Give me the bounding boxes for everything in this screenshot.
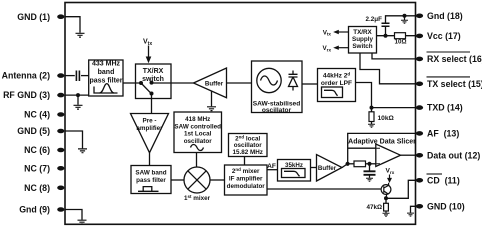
svg-text:418 MHz: 418 MHz [185, 116, 210, 123]
wire buffer out [342, 164, 348, 168]
ground [207, 107, 216, 111]
wire preamp to saw bpf [149, 153, 151, 166]
node [76, 93, 80, 97]
filter 44kHz LPF [318, 69, 356, 102]
svg-text:RX select (16): RX select (16) [427, 54, 482, 64]
capacitor 2.2uF [382, 23, 390, 26]
svg-text:Adaptive Data Slicer: Adaptive Data Slicer [348, 138, 416, 145]
amplifier pre-amp [131, 114, 169, 153]
pin Data out (12) [416, 150, 480, 160]
svg-text:TX/RX: TX/RX [353, 29, 372, 36]
svg-text:AF (13): AF (13) [427, 129, 459, 139]
node [346, 162, 350, 166]
ground [407, 213, 414, 216]
filter SAW band pass [131, 166, 171, 194]
pin TXD (14) [416, 103, 463, 113]
ground [74, 105, 83, 109]
svg-text:Buffer: Buffer [318, 165, 337, 172]
svg-text:GND (10): GND (10) [427, 201, 465, 211]
svg-text:2nd mixer: 2nd mixer [232, 167, 260, 175]
filter 433MHz band pass [89, 60, 123, 96]
ground [368, 124, 375, 127]
wire rfgnd [65, 94, 89, 96]
wire 418 to mixer [196, 153, 198, 168]
svg-text:NC (8): NC (8) [24, 183, 50, 193]
wire vrx arrow [389, 175, 391, 179]
svg-text:Buffer: Buffer [205, 80, 224, 87]
wire antenna [65, 75, 75, 77]
svg-text:Gnd (9): Gnd (9) [19, 205, 50, 215]
svg-text:SAW controlled: SAW controlled [174, 123, 221, 130]
transistor carrier detect [381, 183, 391, 199]
wire Vtx arrow [148, 46, 150, 58]
svg-text:TX select (15): TX select (15) [427, 79, 482, 89]
wire AF pin net [348, 133, 416, 163]
filter 35kHz [278, 160, 311, 182]
oscillator SAW-stabilised [252, 61, 303, 113]
ground [383, 213, 390, 216]
svg-text:pass filter: pass filter [89, 78, 122, 85]
op-amp comparator [376, 144, 401, 167]
wire gnd9 [65, 210, 82, 220]
wire switch to preamp [151, 99, 153, 114]
wire mixer to demod [210, 179, 225, 181]
svg-text:Switch: Switch [352, 43, 372, 50]
wire base from demod [267, 188, 381, 190]
wire switch to buffer [171, 82, 194, 84]
node [370, 106, 374, 110]
svg-text:Vtx: Vtx [323, 29, 332, 36]
svg-text:RF GND (3): RF GND (3) [3, 90, 50, 100]
svg-text:NC (6): NC (6) [24, 145, 50, 155]
mixer 1st [184, 167, 210, 193]
resistor 47k [385, 198, 387, 203]
svg-text:TXD (14): TXD (14) [427, 103, 463, 113]
capacitor slicer [369, 164, 371, 171]
svg-text:Antenna (2): Antenna (2) [2, 71, 50, 81]
wire [81, 75, 89, 77]
node [403, 14, 407, 18]
pin AF (13) [416, 129, 459, 139]
resistor slicer [348, 163, 354, 165]
svg-text:Pre -: Pre - [143, 118, 157, 125]
module outline [65, 3, 416, 225]
svg-text:Supply: Supply [352, 36, 373, 43]
pin GND (5) [17, 126, 64, 136]
svg-text:TX/RX: TX/RX [143, 68, 164, 75]
wire gnd5 [65, 131, 83, 148]
pin Vcc (17) [416, 31, 461, 41]
pin Antenna (2) [2, 71, 65, 81]
capacitor antenna coupling [76, 71, 79, 82]
pin TX select (15) [416, 77, 482, 89]
svg-text:Vcc (17): Vcc (17) [427, 31, 461, 41]
ground [78, 149, 87, 153]
svg-text:433 MHz: 433 MHz [92, 60, 121, 67]
switch TX/RX supply [349, 27, 377, 54]
svg-text:amplifier: amplifier [136, 125, 163, 132]
wire vcc net [377, 35, 416, 37]
wire bpf to switch [123, 82, 136, 84]
pin GND (1) [17, 12, 64, 22]
resistor 10k [371, 108, 373, 112]
svg-text:15.82 MHz: 15.82 MHz [232, 149, 262, 156]
pin Gnd (9) [19, 205, 64, 215]
ground [76, 33, 85, 37]
svg-text:35kHz: 35kHz [285, 162, 303, 169]
svg-text:2.2μF: 2.2μF [366, 16, 383, 23]
pin NC (6) [24, 145, 64, 155]
svg-text:47kΩ: 47kΩ [366, 204, 382, 211]
switch TX/RX [136, 64, 172, 99]
wire osc to lpf [302, 83, 318, 85]
svg-text:GND (1): GND (1) [17, 12, 50, 22]
svg-text:Data out (12): Data out (12) [427, 150, 480, 160]
svg-text:oscillator: oscillator [262, 107, 292, 114]
wire Vtx out [338, 31, 349, 33]
wire lpf to txd [356, 83, 416, 108]
wire rx select net [372, 53, 416, 59]
svg-text:band: band [98, 69, 115, 76]
svg-text:CD (11): CD (11) [427, 175, 460, 185]
svg-text:NC (4): NC (4) [24, 110, 50, 120]
svg-text:pass filter: pass filter [136, 177, 166, 184]
wire [77, 95, 79, 105]
wire sawbpf to mixer [171, 179, 184, 181]
oscillator 2nd local [229, 134, 268, 157]
wire buffer to osc [227, 82, 252, 84]
pin NC (4) [24, 110, 64, 120]
pin GND (10) [416, 201, 465, 211]
wire osc2 to demod [244, 157, 246, 166]
svg-text:GND (5): GND (5) [17, 126, 50, 136]
svg-text:Vrx: Vrx [322, 45, 331, 52]
svg-text:demodulator: demodulator [227, 183, 266, 190]
wire gnd1 [65, 17, 80, 33]
wire gnd10 [411, 206, 416, 213]
pin RX select (16) [416, 52, 482, 64]
buffer U-tx [194, 68, 227, 98]
pin NC (8) [24, 183, 64, 193]
pin NC (7) [24, 163, 64, 173]
resistor 10R [395, 33, 406, 39]
svg-text:order LPF: order LPF [321, 80, 352, 87]
wire AF out [267, 169, 278, 171]
ground [404, 16, 406, 20]
svg-text:oscillator: oscillator [184, 138, 213, 145]
svg-text:IF amplifier: IF amplifier [229, 176, 263, 183]
pin RF GND (3) [3, 90, 64, 100]
wire data out [401, 154, 416, 156]
node [384, 196, 388, 200]
svg-text:Vtx: Vtx [143, 39, 152, 48]
wire buffer ground [211, 91, 213, 107]
pin Gnd (18) [416, 11, 463, 21]
pin CD (11) [416, 174, 460, 185]
wire Vrx out [338, 47, 349, 49]
svg-text:Gnd (18): Gnd (18) [427, 11, 463, 21]
ground [366, 178, 373, 181]
wire 35k to buffer [311, 167, 317, 169]
svg-text:44kHz 2d: 44kHz 2d [323, 72, 351, 80]
wire gnd18 net [386, 16, 416, 23]
node [367, 162, 371, 166]
svg-text:1st mixer: 1st mixer [184, 194, 211, 202]
svg-text:SAW band: SAW band [135, 170, 166, 177]
oscillator 418MHz [174, 112, 222, 153]
wire CD net [386, 180, 416, 198]
buffer U-rx [317, 155, 343, 182]
demodulator 2nd mixer IF amp [225, 165, 268, 195]
svg-text:AF: AF [267, 163, 276, 170]
svg-text:Vrx: Vrx [386, 168, 395, 175]
svg-text:10Ω: 10Ω [394, 39, 406, 46]
svg-text:switch: switch [142, 76, 164, 83]
wire slicer plus input [348, 147, 376, 149]
svg-text:NC (7): NC (7) [24, 163, 50, 173]
svg-text:10kΩ: 10kΩ [378, 115, 395, 122]
node [384, 34, 388, 38]
ground [78, 220, 87, 224]
wire tx select net [360, 53, 416, 84]
svg-text:1st Local: 1st Local [184, 131, 212, 138]
